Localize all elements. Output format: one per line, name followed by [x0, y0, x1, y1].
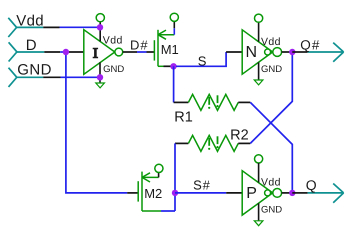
inverter N apex small circle: [265, 49, 271, 55]
transistor M2: [138, 172, 162, 211]
inverter N Vdd pin stub: [258, 22, 260, 41]
inverter P output bubble: [273, 189, 282, 198]
M1 source lead to node S: [164, 65, 174, 67]
output port Q#: [292, 38, 343, 62]
junction Q# node: [289, 49, 295, 55]
wire Vdd net: [60, 26, 101, 28]
resistor R1: [174, 94, 251, 125]
M2 drain stub: [158, 173, 160, 178]
inverter U I (triangle): [84, 30, 115, 75]
wire GND net: [61, 76, 101, 78]
inverter I GND pin stub: [99, 62, 101, 77]
svg-text:GND: GND: [103, 64, 124, 75]
inverter P output wire: [282, 192, 293, 194]
ground symbol below inverter N: [254, 80, 263, 85]
wire S# net to inverter P input: [175, 192, 242, 194]
wire D# net (inverter output to M1 gate): [123, 51, 155, 53]
wire S net down to R1: [173, 66, 175, 102]
svg-text:M2: M2: [144, 186, 162, 201]
node S junction: [170, 63, 176, 69]
svg-text:R1: R1: [174, 109, 193, 125]
svg-text:Vdd: Vdd: [261, 36, 281, 48]
ground symbol below inverter P: [254, 221, 263, 226]
junction Vdd net / inverter I: [97, 24, 103, 30]
svg-text:GND: GND: [17, 62, 52, 79]
inverter N output bubble: [273, 48, 282, 57]
inverter I Vdd pin stub: [99, 22, 101, 42]
svg-text:D#: D#: [130, 38, 149, 53]
svg-text:GND: GND: [261, 64, 282, 75]
inverter P apex small circle: [265, 190, 271, 196]
junction GND net / inverter I: [97, 74, 103, 80]
wire S net to inverter N input: [176, 52, 242, 66]
svg-text:S#: S#: [193, 178, 211, 193]
inverter U N (triangle): [242, 30, 273, 74]
inverter N Vdd terminal circle: [255, 14, 263, 22]
svg-text:M1: M1: [161, 42, 179, 57]
M2 drain open terminal circle: [155, 164, 163, 172]
inverter I output bubble: [115, 48, 123, 56]
junction D net branch: [63, 49, 69, 55]
svg-text:R2: R2: [230, 127, 249, 143]
resistor R2: [175, 127, 250, 151]
svg-text:Q#: Q#: [300, 38, 320, 53]
input port D: [9, 37, 61, 61]
svg-text:Vdd: Vdd: [16, 13, 44, 30]
inverter U P (triangle): [242, 171, 273, 215]
svg-text:GND: GND: [261, 205, 282, 216]
R1 missing-value marks !!: [208, 95, 219, 109]
M1 drain riser wire: [173, 21, 175, 34]
wire R2 to Q# net (diagonal cross): [250, 52, 292, 143]
svg-text:D: D: [26, 37, 37, 54]
R2 missing-value marks !!: [208, 136, 219, 150]
junction Q node: [289, 190, 295, 196]
wire R1 to Q net (diagonal cross): [250, 102, 292, 192]
input port GND: [9, 62, 61, 87]
svg-text:P: P: [246, 185, 257, 202]
inverter P Vdd terminal circle: [255, 155, 263, 163]
inverter P Vdd pin stub: [258, 163, 260, 183]
M1 drain open terminal circle: [170, 13, 178, 21]
inverter I Vdd terminal circle: [96, 14, 104, 22]
svg-text:Vdd: Vdd: [103, 34, 123, 46]
inverter P GND pin stub: [258, 203, 260, 221]
ground symbol below inverter I: [96, 77, 105, 88]
transistor M1: [154, 30, 178, 67]
M2 source wire to S# riser: [161, 210, 175, 212]
input port Vdd: [8, 13, 59, 38]
output port Q: [292, 177, 343, 203]
node S# junction: [172, 190, 178, 196]
svg-text:Vdd: Vdd: [261, 177, 281, 189]
wire R2 left riser to S#: [174, 143, 176, 211]
wire D net branch down to M2 gate: [66, 52, 138, 193]
svg-text:N: N: [246, 44, 258, 61]
svg-text:Q: Q: [306, 177, 317, 193]
inverter N GND pin stub: [258, 62, 260, 80]
inverter N output wire: [282, 51, 293, 53]
wire D net to inverter input: [60, 51, 84, 53]
